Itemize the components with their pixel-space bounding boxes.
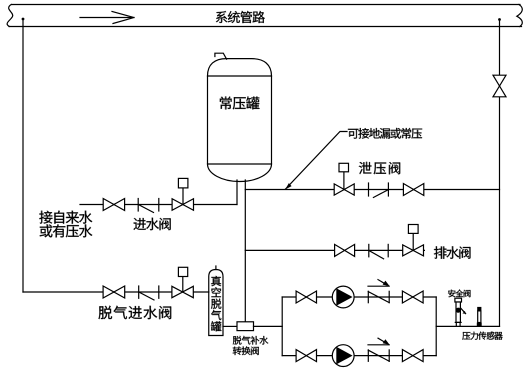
flow arrow inside pipe	[80, 12, 134, 24]
pressure sensor 压力传感器	[477, 307, 482, 326]
check valve degas line	[139, 286, 159, 300]
valve P2 bottom branch suction gate	[296, 350, 316, 362]
wire right pump header	[435, 297, 437, 356]
check valve inlet line	[138, 199, 159, 213]
safety valve 安全阀	[455, 298, 466, 326]
wire tank outlet left leg	[236, 180, 238, 205]
valve on right riser	[493, 75, 506, 97]
node left pipe junction	[22, 18, 25, 21]
check valve P1 top branch with flow arrow	[368, 280, 390, 303]
label 可接地漏或常压	[348, 128, 422, 139]
label 排水阀	[434, 246, 470, 258]
valve inlet gate valve	[103, 199, 124, 211]
tank 真空脱气罐 vacuum degassing tank	[209, 266, 223, 336]
valve degas gate	[103, 286, 125, 298]
valve P1 top branch discharge gate	[402, 291, 423, 303]
valve 脱气补水转换阀 switch box	[237, 322, 254, 331]
wire right connector to riser	[436, 325, 499, 327]
label 压力传感器	[462, 332, 502, 340]
wire tank outlet right leg / middle riser	[244, 180, 246, 322]
label 进水阀	[134, 218, 171, 230]
valve drain actuated 排水阀	[403, 225, 424, 256]
pump P2 bottom branch	[332, 345, 354, 367]
check valve P2 bottom branch with flow arrow	[368, 338, 390, 361]
label 或有压水	[40, 224, 92, 237]
valve 泄压阀 actuated	[334, 163, 354, 195]
wire bottom pump branch	[282, 355, 436, 357]
valve P1 top branch suction gate	[296, 291, 316, 303]
wire top pump branch	[282, 296, 436, 298]
label 真空脱气罐	[211, 276, 221, 331]
valve inlet actuated 电磁阀	[172, 178, 193, 210]
label 接自来水	[39, 211, 92, 224]
label 脱气补水	[233, 336, 269, 345]
label 转换阀	[233, 346, 259, 355]
label 系统管路	[216, 11, 265, 23]
wire degas inlet line 脱气进水阀 line	[23, 291, 209, 293]
label 安全阀	[448, 290, 470, 298]
wire inlet line 进水阀 line	[80, 204, 237, 206]
label 脱气进水阀	[98, 306, 171, 319]
pump P1 top branch	[332, 286, 354, 308]
valve P2 bottom branch discharge gate	[402, 350, 423, 362]
check valve relief line	[369, 183, 389, 198]
wire left pump header	[281, 297, 283, 356]
node right pipe junction	[498, 18, 501, 21]
label 常压罐	[220, 97, 260, 110]
wire vacuum tank to switch box	[223, 325, 237, 327]
valve drain gate	[335, 244, 355, 256]
tank 常压罐	[208, 59, 272, 182]
pipe 系统管路 top main pipe	[7, 5, 522, 27]
wire drain line 排水阀 line	[245, 249, 424, 251]
valve relief line gate	[403, 184, 423, 196]
label 泄压阀	[359, 162, 400, 174]
leader line 可接地漏或常压	[285, 132, 347, 190]
check valve drain line	[369, 244, 388, 258]
wire relief line 泄压阀 line	[245, 189, 499, 191]
wire left riser	[22, 19, 24, 292]
wire right riser	[499, 20, 501, 327]
wire switch box to pump headers	[254, 325, 283, 327]
valve degas actuated	[172, 267, 193, 297]
tank top fitting	[215, 53, 227, 59]
